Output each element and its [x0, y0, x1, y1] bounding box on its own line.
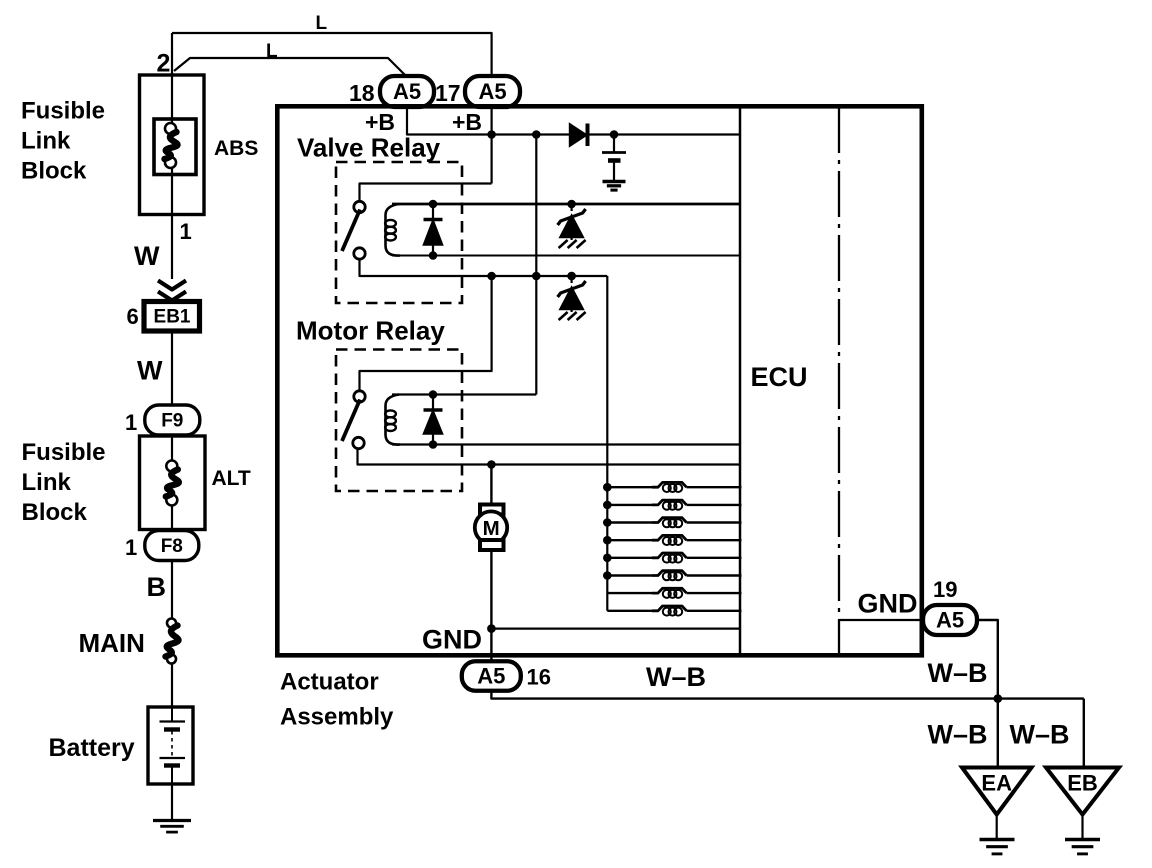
- svg-text:A5: A5: [393, 79, 421, 104]
- svg-text:Battery: Battery: [49, 734, 135, 762]
- svg-text:W: W: [134, 241, 160, 271]
- svg-text:EA: EA: [981, 771, 1012, 796]
- svg-text:F8: F8: [161, 536, 183, 557]
- svg-text:W–B: W–B: [928, 658, 988, 688]
- svg-text:A5: A5: [478, 79, 506, 104]
- svg-text:W–B: W–B: [646, 662, 706, 692]
- svg-text:EB: EB: [1067, 771, 1098, 796]
- svg-text:+B: +B: [452, 109, 482, 135]
- svg-text:A5: A5: [936, 607, 964, 632]
- svg-text:A5: A5: [477, 663, 505, 688]
- svg-text:Assembly: Assembly: [280, 704, 394, 731]
- svg-text:ABS: ABS: [214, 137, 258, 160]
- svg-text:Fusible: Fusible: [21, 98, 105, 125]
- svg-text:L: L: [316, 13, 328, 34]
- svg-text:19: 19: [933, 577, 957, 602]
- svg-text:1: 1: [125, 410, 137, 435]
- svg-text:F9: F9: [161, 410, 183, 431]
- svg-text:1: 1: [125, 535, 137, 560]
- svg-text:B: B: [147, 572, 167, 602]
- svg-text:W–B: W–B: [1010, 720, 1070, 750]
- svg-text:ECU: ECU: [751, 362, 808, 392]
- svg-text:EB1: EB1: [154, 307, 191, 328]
- svg-text:6: 6: [127, 304, 139, 329]
- svg-text:L: L: [266, 41, 278, 62]
- svg-text:M: M: [483, 517, 500, 540]
- svg-text:Actuator: Actuator: [280, 669, 379, 696]
- svg-text:GND: GND: [422, 625, 482, 655]
- svg-text:Fusible: Fusible: [22, 439, 106, 466]
- svg-text:Motor Relay: Motor Relay: [296, 316, 445, 346]
- svg-text:Valve Relay: Valve Relay: [297, 133, 441, 163]
- svg-text:W–B: W–B: [928, 720, 988, 750]
- svg-text:ALT: ALT: [212, 467, 251, 490]
- svg-text:+B: +B: [365, 109, 395, 135]
- svg-text:16: 16: [527, 665, 551, 690]
- svg-text:GND: GND: [858, 589, 918, 619]
- svg-text:18: 18: [349, 80, 375, 106]
- svg-text:MAIN: MAIN: [79, 628, 145, 658]
- svg-text:Block: Block: [22, 499, 88, 526]
- svg-text:1: 1: [180, 219, 192, 244]
- svg-text:Block: Block: [21, 158, 87, 185]
- svg-text:17: 17: [435, 80, 461, 106]
- svg-text:Link: Link: [21, 128, 71, 155]
- svg-text:W: W: [137, 356, 163, 386]
- svg-text:Link: Link: [22, 469, 72, 496]
